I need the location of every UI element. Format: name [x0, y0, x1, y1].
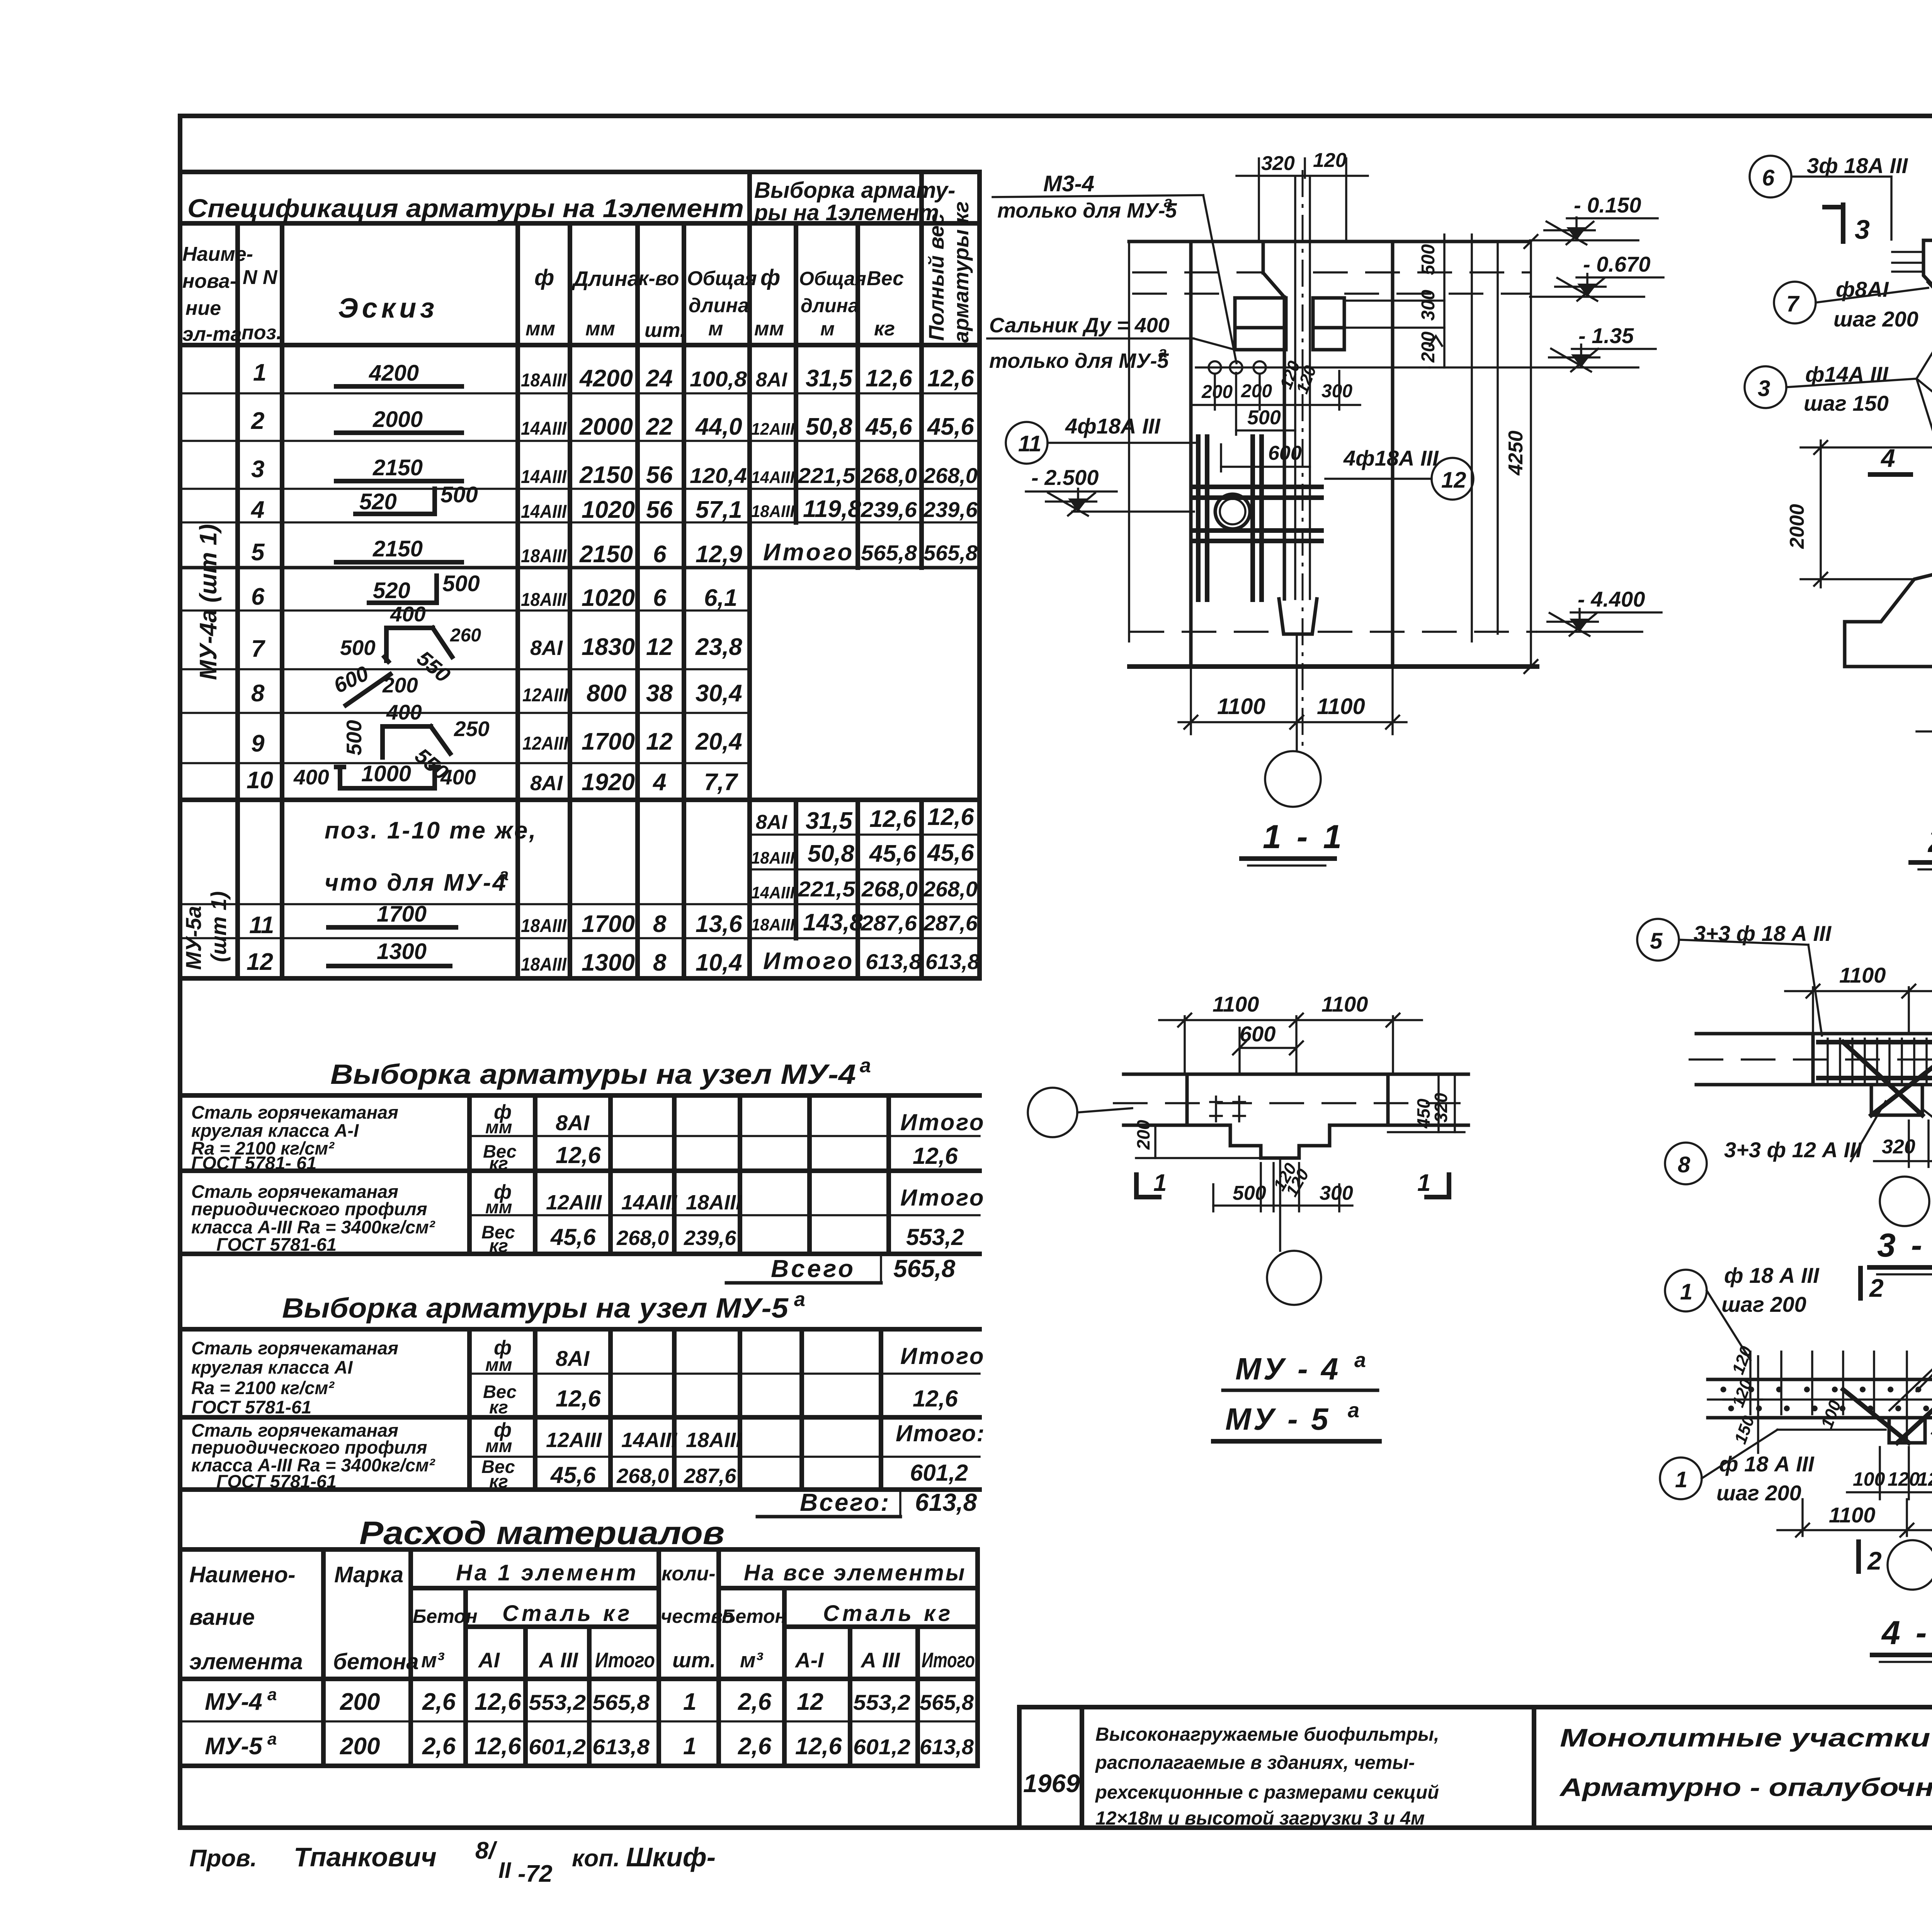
svg-text:3+3 ф 12 А III: 3+3 ф 12 А III: [1724, 1138, 1862, 1162]
rebar dots rows: [1723, 1387, 1932, 1393]
svg-text:Итого: Итого: [900, 1185, 985, 1211]
svg-text:1000: 1000: [361, 761, 411, 786]
svg-text:ф 18 А III: ф 18 А III: [1724, 1263, 1820, 1287]
svg-text:12АIII: 12АIII: [546, 1429, 602, 1452]
svg-text:12,6: 12,6: [927, 365, 974, 392]
vyborka MU-5a table: [180, 1288, 985, 1517]
svg-text:320: 320: [1431, 1093, 1451, 1122]
salnik blocks: [1235, 298, 1286, 350]
svg-text:31,5: 31,5: [806, 365, 853, 392]
svg-text:а: а: [1354, 1349, 1366, 1372]
svg-text:4ф18А III: 4ф18А III: [1065, 414, 1161, 438]
svg-text:6: 6: [653, 541, 667, 568]
svg-text:565,8: 565,8: [861, 541, 917, 565]
svg-text:Итого: Итого: [763, 948, 854, 975]
svg-text:2,6: 2,6: [422, 1733, 456, 1760]
svg-text:200: 200: [1241, 381, 1272, 401]
svg-text:ф8АI: ф8АI: [1836, 277, 1889, 301]
svg-text:4: 4: [250, 497, 264, 523]
svg-text:На 1 элемент: На 1 элемент: [456, 1560, 638, 1585]
svg-text:только для МУ-5: только для МУ-5: [989, 349, 1169, 372]
svg-text:500: 500: [1418, 244, 1439, 275]
section 3-3: [1637, 919, 1932, 1274]
spec rows data: [247, 359, 980, 976]
svg-text:18АIII: 18АIII: [751, 502, 795, 521]
svg-text:221,5: 221,5: [798, 877, 855, 901]
svg-text:120: 120: [1313, 149, 1347, 172]
1100 dims: [1801, 1499, 1804, 1536]
svg-text:кг: кг: [489, 1235, 508, 1256]
svg-text:200: 200: [340, 1689, 380, 1715]
svg-text:500: 500: [340, 636, 376, 660]
vyborka MU-4a table: [180, 1054, 985, 1283]
svg-text:2150: 2150: [579, 541, 633, 568]
svg-text:18АIII: 18АIII: [751, 915, 795, 934]
svg-text:300: 300: [1320, 1182, 1353, 1204]
svg-text:12,6: 12,6: [474, 1689, 521, 1715]
svg-text:а: а: [794, 1288, 805, 1311]
svg-text:А III: А III: [860, 1648, 901, 1672]
svg-text:50,8: 50,8: [808, 840, 854, 867]
svg-text:8/: 8/: [475, 1837, 497, 1864]
svg-text:а: а: [860, 1054, 871, 1077]
svg-text:ГОСТ 5781-61: ГОСТ 5781-61: [216, 1234, 337, 1255]
svg-text:57,1: 57,1: [696, 497, 742, 523]
svg-text:круглая класса АI: круглая класса АI: [191, 1357, 353, 1378]
svg-text:Ra = 2100 кг/см²: Ra = 2100 кг/см²: [191, 1378, 335, 1398]
svg-text:239,6: 239,6: [923, 497, 978, 522]
svg-text:АI: АI: [478, 1648, 500, 1672]
svg-text:11: 11: [249, 912, 274, 939]
svg-text:613,8: 613,8: [925, 949, 980, 974]
labels left: [1774, 282, 1816, 323]
section 1-1: [987, 149, 1663, 866]
svg-text:2150: 2150: [372, 536, 423, 561]
svg-text:Арматурно - опалубочный черте: Арматурно - опалубочный чертеж: [1559, 1773, 1932, 1801]
svg-text:Итого: Итого: [900, 1343, 985, 1369]
svg-text:ф: ф: [534, 265, 554, 290]
svg-text:8АI: 8АI: [756, 369, 787, 391]
svg-text:13,6: 13,6: [696, 911, 742, 937]
section 2-2: [1745, 150, 1932, 869]
svg-text:Сталь горячекатаная: Сталь горячекатаная: [191, 1338, 398, 1358]
svg-text:а: а: [499, 865, 509, 884]
svg-text:12,6: 12,6: [556, 1386, 601, 1412]
svg-text:1700: 1700: [582, 728, 635, 755]
svg-text:14АIII: 14АIII: [521, 418, 567, 439]
svg-text:400: 400: [293, 765, 329, 789]
svg-text:-72: -72: [518, 1861, 553, 1887]
svg-text:12: 12: [797, 1689, 823, 1715]
svg-text:что для МУ-4: что для МУ-4: [325, 869, 507, 896]
svg-text:1700: 1700: [582, 911, 635, 937]
svg-text:56: 56: [646, 497, 673, 523]
svg-text:30,4: 30,4: [696, 680, 742, 707]
svg-text:Сталь горячекатаная: Сталь горячекатаная: [191, 1102, 398, 1122]
svg-text:12: 12: [1441, 468, 1466, 493]
svg-text:шаг 200: шаг 200: [1833, 307, 1918, 331]
signature line: [189, 1837, 716, 1887]
svg-text:2: 2: [251, 408, 264, 434]
svg-text:45,6: 45,6: [550, 1462, 596, 1488]
svg-text:4200: 4200: [369, 361, 419, 386]
svg-text:287,6: 287,6: [861, 911, 917, 935]
svg-text:- 4.400: - 4.400: [1578, 587, 1645, 611]
svg-text:31,5: 31,5: [806, 808, 853, 834]
svg-text:Марка: Марка: [334, 1562, 403, 1587]
svg-text:8АI: 8АI: [530, 636, 563, 660]
svg-text:а: а: [267, 1730, 277, 1748]
svg-text:II: II: [498, 1858, 512, 1883]
svg-text:3 - 3: 3 - 3: [1877, 1227, 1932, 1264]
svg-text:Сальник Ду = 400: Сальник Ду = 400: [989, 314, 1170, 337]
section marks 2: [1858, 1268, 1863, 1298]
svg-text:1100: 1100: [1321, 992, 1368, 1016]
svg-text:143,8: 143,8: [803, 909, 863, 936]
svg-text:3: 3: [251, 456, 264, 483]
top dims 320/120: [1258, 158, 1260, 241]
svg-text:601,2: 601,2: [910, 1460, 968, 1486]
svg-text:1100: 1100: [1829, 1503, 1875, 1527]
svg-text:18АIII: 18АIII: [521, 370, 567, 391]
svg-text:А-I: А-I: [794, 1648, 824, 1672]
svg-text:2,6: 2,6: [738, 1689, 772, 1715]
svg-text:613,8: 613,8: [592, 1735, 650, 1759]
svg-text:бетона: бетона: [333, 1649, 419, 1674]
svg-text:400: 400: [440, 765, 476, 789]
svg-text:8АI: 8АI: [556, 1346, 590, 1371]
svg-text:221,5: 221,5: [798, 463, 855, 488]
section 4-4: [1660, 1251, 1932, 1662]
svg-text:1: 1: [683, 1733, 696, 1760]
svg-text:1300: 1300: [377, 939, 427, 964]
svg-text:Полный вес: Полный вес: [924, 213, 948, 341]
svg-text:ние: ние: [185, 297, 221, 320]
svg-text:14АIII: 14АIII: [521, 467, 567, 487]
svg-text:12,6: 12,6: [913, 1386, 958, 1412]
svg-text:6: 6: [1762, 165, 1775, 190]
svg-text:Итого: Итого: [922, 1648, 975, 1672]
svg-text:268,0: 268,0: [923, 463, 978, 488]
svg-text:МУ-4: МУ-4: [205, 1689, 262, 1715]
svg-text:Общая: Общая: [799, 268, 866, 289]
svg-text:1: 1: [683, 1689, 696, 1715]
svg-text:- 0.150: - 0.150: [1574, 193, 1641, 217]
svg-text:10: 10: [247, 767, 273, 794]
svg-text:12,6: 12,6: [795, 1733, 842, 1760]
plan MU-4a / MU-5a: [1028, 992, 1476, 1441]
dims top: [1812, 987, 1814, 1034]
grid circles: [1028, 1088, 1077, 1137]
svg-text:565,8: 565,8: [592, 1690, 650, 1714]
svg-text:вание: вание: [189, 1605, 255, 1630]
svg-text:200: 200: [340, 1733, 380, 1760]
svg-text:1100: 1100: [1317, 694, 1365, 719]
svg-text:239,6: 239,6: [861, 497, 917, 522]
dashed slab lines: [1132, 271, 1262, 274]
svg-text:287,6: 287,6: [923, 911, 978, 935]
svg-text:кг: кг: [874, 318, 895, 340]
svg-text:шаг 200: шаг 200: [1721, 1292, 1806, 1316]
svg-text:мм: мм: [485, 1354, 512, 1375]
grid circle: [1888, 1540, 1932, 1590]
svg-text:м: м: [820, 318, 835, 340]
svg-text:12: 12: [247, 949, 273, 975]
svg-text:10,4: 10,4: [696, 949, 742, 976]
svg-text:268,0: 268,0: [861, 877, 918, 901]
svg-text:- 0.670: - 0.670: [1583, 252, 1650, 276]
svg-text:7: 7: [251, 636, 265, 662]
svg-text:7,7: 7,7: [704, 769, 738, 796]
svg-text:200: 200: [1201, 382, 1233, 402]
svg-text:12: 12: [646, 728, 673, 755]
svg-text:45,6: 45,6: [869, 840, 916, 867]
svg-text:4ф18А III: 4ф18А III: [1343, 446, 1439, 470]
svg-text:45,6: 45,6: [927, 840, 974, 866]
svg-text:Шкиф-: Шкиф-: [626, 1842, 716, 1872]
svg-text:601,2: 601,2: [853, 1735, 910, 1759]
column head: [1923, 240, 1932, 571]
svg-text:1: 1: [1675, 1467, 1687, 1492]
svg-text:6,1: 6,1: [704, 585, 737, 611]
svg-text:120: 120: [1888, 1468, 1920, 1490]
svg-text:4250: 4250: [1505, 430, 1527, 476]
svg-text:нова-: нова-: [182, 270, 236, 293]
svg-text:коли-: коли-: [662, 1563, 716, 1585]
svg-text:ф 18 А III: ф 18 А III: [1719, 1452, 1815, 1476]
svg-text:18АIII: 18АIII: [521, 916, 567, 936]
svg-text:2: 2: [1869, 1274, 1884, 1302]
svg-text:200: 200: [1133, 1120, 1153, 1150]
svg-text:ГОСТ 5781-61: ГОСТ 5781-61: [191, 1397, 311, 1417]
svg-text:45,6: 45,6: [550, 1224, 596, 1250]
svg-text:100,8: 100,8: [690, 367, 747, 391]
svg-text:1920: 1920: [582, 769, 635, 796]
svg-text:7: 7: [1786, 291, 1800, 316]
svg-text:553,2: 553,2: [853, 1690, 910, 1714]
svg-text:2,6: 2,6: [422, 1689, 456, 1715]
svg-text:260: 260: [450, 625, 481, 646]
svg-text:520: 520: [359, 489, 397, 514]
svg-text:2150: 2150: [579, 462, 633, 488]
svg-text:длина: длина: [689, 294, 749, 317]
svg-text:3: 3: [1758, 376, 1770, 401]
salnik plan detail: [1210, 1097, 1245, 1121]
svg-text:12,6: 12,6: [869, 806, 916, 832]
svg-text:Монолитные участки МУ-4: Монолитные участки МУ-4: [1560, 1723, 1932, 1752]
svg-text:8: 8: [1678, 1152, 1690, 1177]
svg-text:Тпанкович: Тпанкович: [294, 1842, 437, 1872]
svg-text:Наимено-: Наимено-: [189, 1562, 296, 1587]
svg-text:18АIII: 18АIII: [686, 1191, 742, 1214]
svg-text:поз.: поз.: [241, 321, 282, 344]
svg-text:располагаемые в зданиях, чет: располагаемые в зданиях, четы-: [1095, 1752, 1415, 1773]
svg-text:250: 250: [454, 717, 490, 741]
svg-text:14АIII: 14АIII: [521, 502, 567, 522]
svg-text:553,2: 553,2: [906, 1224, 964, 1250]
svg-text:8: 8: [251, 680, 265, 707]
svg-text:МУ - 4: МУ - 4: [1235, 1352, 1340, 1386]
svg-text:2,6: 2,6: [738, 1733, 772, 1760]
svg-text:Вес: Вес: [867, 267, 904, 290]
column: [1262, 241, 1265, 273]
svg-text:12: 12: [646, 634, 673, 660]
svg-text:18АIII: 18АIII: [751, 849, 795, 867]
svg-text:45,6: 45,6: [927, 413, 974, 440]
svg-text:рехсекционные с размерами с: рехсекционные с размерами секций: [1095, 1782, 1439, 1803]
svg-text:9: 9: [251, 730, 265, 757]
svg-text:12,6: 12,6: [913, 1143, 958, 1169]
svg-text:мм: мм: [585, 318, 615, 340]
top labels: [1750, 156, 1791, 197]
svg-text:6: 6: [653, 585, 667, 611]
specification table: [180, 172, 980, 978]
svg-text:4200: 4200: [579, 365, 633, 392]
svg-text:мм: мм: [526, 318, 555, 340]
svg-text:300: 300: [1418, 290, 1439, 321]
svg-text:268,0: 268,0: [616, 1464, 669, 1488]
svg-text:12,6: 12,6: [474, 1733, 521, 1760]
svg-text:Итого: Итого: [595, 1648, 655, 1672]
svg-text:44,0: 44,0: [695, 413, 742, 440]
svg-text:- 1.35: - 1.35: [1578, 323, 1634, 348]
svg-text:2 - 2: 2 - 2: [1927, 822, 1932, 859]
svg-text:12,6: 12,6: [556, 1142, 601, 1168]
svg-text:мм: мм: [754, 318, 784, 340]
section marks 3: [1841, 205, 1845, 241]
svg-text:613,8: 613,8: [920, 1735, 974, 1759]
svg-text:шт.: шт.: [672, 1648, 716, 1672]
svg-text:3: 3: [1855, 214, 1870, 245]
bottom dims: [1190, 667, 1192, 734]
svg-text:Итого: Итого: [900, 1109, 985, 1135]
svg-text:Высоконагружаемые биофильтры,: Высоконагружаемые биофильтры,: [1095, 1724, 1439, 1745]
svg-text:шаг 150: шаг 150: [1804, 391, 1889, 415]
svg-text:18АIII: 18АIII: [521, 590, 567, 610]
svg-text:1100: 1100: [1217, 694, 1265, 719]
svg-text:кг: кг: [489, 1153, 508, 1173]
svg-text:45,6: 45,6: [865, 413, 912, 440]
svg-text:22: 22: [646, 413, 673, 440]
svg-text:12АIII: 12АIII: [522, 685, 569, 706]
svg-text:Эскиз: Эскиз: [338, 293, 438, 324]
svg-text:2150: 2150: [372, 455, 423, 480]
svg-text:400: 400: [390, 602, 426, 626]
svg-text:565,8: 565,8: [923, 541, 978, 565]
svg-text:МУ-5а: МУ-5а: [181, 906, 206, 970]
svg-text:268,0: 268,0: [861, 463, 917, 488]
svg-text:565,8: 565,8: [920, 1690, 974, 1714]
svg-text:20,4: 20,4: [695, 728, 742, 755]
svg-text:МУ - 5: МУ - 5: [1225, 1402, 1330, 1436]
grid circle: [1265, 751, 1321, 807]
svg-text:2000: 2000: [1786, 504, 1808, 549]
svg-text:А III: А III: [538, 1648, 579, 1672]
svg-text:14АIII: 14АIII: [751, 883, 795, 902]
svg-text:800: 800: [587, 680, 626, 707]
svg-text:23,8: 23,8: [695, 634, 742, 660]
rebar grid: [1194, 437, 1321, 600]
svg-text:300: 300: [1321, 381, 1352, 401]
svg-text:МУ-5: МУ-5: [205, 1733, 263, 1760]
svg-text:3ф 18А III: 3ф 18А III: [1807, 153, 1908, 178]
svg-text:шаг 200: шаг 200: [1716, 1481, 1801, 1505]
svg-text:239,6: 239,6: [684, 1226, 736, 1250]
svg-text:8АI: 8АI: [756, 811, 787, 833]
svg-text:ф: ф: [760, 265, 780, 290]
svg-text:а: а: [1158, 344, 1167, 361]
svg-text:120,4: 120,4: [690, 463, 747, 488]
svg-text:12,9: 12,9: [696, 541, 742, 568]
svg-text:200: 200: [1418, 332, 1439, 363]
svg-text:N N: N N: [243, 266, 278, 289]
svg-text:11: 11: [1018, 431, 1041, 456]
svg-text:1830: 1830: [582, 634, 635, 660]
svg-text:565,8: 565,8: [893, 1255, 956, 1282]
svg-text:(шт 1): (шт 1): [206, 891, 231, 962]
horizontal lines: [180, 170, 980, 174]
svg-text:119,8: 119,8: [803, 496, 861, 522]
svg-text:Выборка арматуры на узел МУ: Выборка арматуры на узел МУ-5: [282, 1293, 789, 1324]
svg-text:120: 120: [1917, 1468, 1932, 1490]
svg-text:500: 500: [342, 720, 366, 755]
svg-text:18АIII: 18АIII: [521, 954, 567, 975]
labels: [1665, 1270, 1707, 1311]
svg-text:длина: длина: [801, 295, 859, 316]
downstand with X: [1871, 1085, 1922, 1115]
foundation: [1845, 571, 1932, 667]
svg-text:14АIII: 14АIII: [621, 1191, 677, 1214]
wall lines: [1128, 241, 1130, 641]
svg-text:8: 8: [653, 911, 667, 937]
svg-text:553,2: 553,2: [529, 1690, 586, 1714]
svg-text:периодического профиля: периодического профиля: [191, 1199, 427, 1219]
svg-text:Длина: Длина: [571, 267, 639, 291]
svg-text:элемента: элемента: [189, 1649, 303, 1674]
svg-text:м³: м³: [740, 1648, 764, 1672]
svg-text:1: 1: [1153, 1170, 1167, 1196]
svg-text:Всего: Всего: [771, 1255, 855, 1282]
svg-text:12×18м и высотой загрузки: 12×18м и высотой загрузки 3 и 4м: [1095, 1808, 1425, 1829]
svg-text:Выборка армату-: Выборка армату-: [754, 178, 955, 203]
svg-text:601,2: 601,2: [529, 1735, 586, 1759]
svg-text:мм: мм: [485, 1197, 512, 1217]
svg-text:12,6: 12,6: [866, 365, 912, 392]
svg-text:1100: 1100: [1839, 963, 1886, 987]
svg-text:Пров.: Пров.: [189, 1845, 257, 1872]
svg-text:1 - 1: 1 - 1: [1263, 818, 1345, 855]
svg-text:а: а: [1348, 1399, 1359, 1422]
svg-text:Расход материалов: Расход материалов: [359, 1515, 724, 1551]
labels: [1637, 919, 1679, 961]
svg-text:а: а: [267, 1685, 277, 1704]
rashod materialov table: [180, 1515, 978, 1766]
svg-text:1700: 1700: [377, 901, 427, 927]
svg-text:12АIII: 12АIII: [751, 420, 795, 439]
svg-text:2: 2: [1867, 1546, 1882, 1575]
svg-text:500: 500: [440, 482, 478, 507]
svg-text:М3-4: М3-4: [1043, 171, 1094, 196]
svg-text:Бетон: Бетон: [413, 1605, 478, 1627]
svg-text:8АI: 8АI: [530, 772, 563, 795]
svg-text:м³: м³: [421, 1648, 445, 1672]
svg-text:м: м: [708, 318, 723, 340]
svg-text:24: 24: [646, 365, 673, 392]
svg-text:613,8: 613,8: [915, 1488, 977, 1516]
svg-text:8: 8: [653, 949, 667, 976]
svg-text:На все элементы: На все элементы: [744, 1560, 966, 1585]
svg-text:Сталь кг: Сталь кг: [823, 1601, 953, 1626]
